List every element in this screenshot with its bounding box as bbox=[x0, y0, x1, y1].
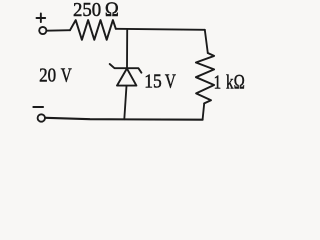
zener diode D1 cathode bar (z-bend bar) bbox=[110, 64, 142, 73]
resistor R 250 ohm (horizontal zigzag) bbox=[70, 20, 116, 40]
svg-text:V: V bbox=[165, 71, 176, 93]
svg-text:kΩ: kΩ bbox=[226, 71, 245, 93]
wire top-left (terminal to resistor) bbox=[47, 29, 71, 32]
zener diode D1 anode triangle bbox=[117, 69, 136, 86]
wire zener branch upper (top rail down to zener cathode) bbox=[126, 30, 128, 68]
wire bottom rail bbox=[46, 118, 203, 120]
terminal + (positive input terminal circle) bbox=[39, 27, 46, 34]
svg-text:20: 20 bbox=[39, 64, 56, 86]
svg-text:1: 1 bbox=[214, 71, 222, 93]
label - polarity sign bbox=[33, 106, 43, 108]
resistor R 1 kohm (vertical zigzag) bbox=[196, 53, 214, 103]
label + polarity sign bbox=[37, 13, 46, 22]
wire right branch upper (top-right corner down to 1k resistor) bbox=[205, 30, 208, 53]
svg-text:V: V bbox=[61, 64, 72, 86]
svg-text:250: 250 bbox=[73, 0, 101, 21]
wire right branch lower (1k resistor to bottom-right corner) bbox=[203, 103, 205, 119]
svg-text:15: 15 bbox=[144, 71, 162, 93]
wire zener branch lower (anode down to bottom rail) bbox=[124, 86, 126, 119]
svg-text:Ω: Ω bbox=[105, 0, 119, 21]
terminal - (negative input terminal circle) bbox=[38, 114, 45, 121]
wire top rail (resistor to top-right corner) bbox=[116, 29, 205, 30]
